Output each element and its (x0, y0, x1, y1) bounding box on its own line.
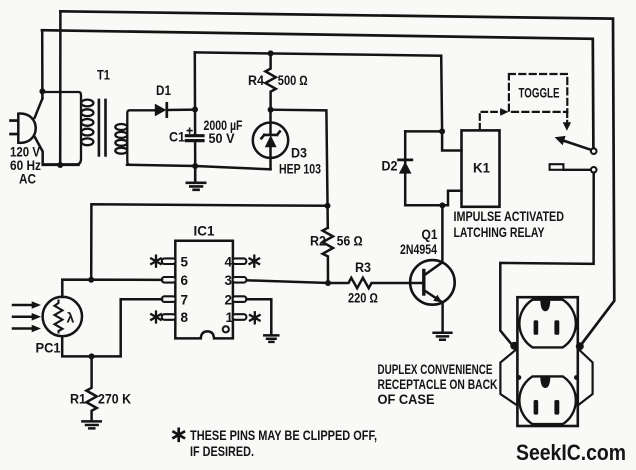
asterisk near pin 4 (250, 256, 260, 267)
wire K1 upper pin lead (442, 131, 461, 150)
svg-text:LATCHING RELAY: LATCHING RELAY (454, 225, 545, 240)
asterisk near pin 5 (151, 256, 161, 267)
transistor Q1 emitter stroke with arrow (424, 290, 441, 302)
wire C1 bottom lead (194, 141, 197, 166)
svg-text:270 K: 270 K (98, 392, 131, 407)
pin 4 stub (233, 258, 247, 264)
svg-text:R2: R2 (310, 234, 326, 249)
wire PC1 top lead to pin 6 (62, 280, 162, 297)
wire plug bottom lead down to bottom AC wire (35, 137, 79, 165)
receptacle left terminal screw (510, 342, 518, 350)
svg-text:D1: D1 (156, 83, 171, 98)
svg-text:SeekIC.com: SeekIC.com (516, 440, 626, 465)
wire dashed toggle box to switch with arrow (566, 112, 568, 122)
ground below C1 (187, 166, 205, 190)
wire dashed K1 to toggle box with arrow (480, 112, 501, 130)
receptacle left mounting wing (500, 349, 517, 406)
diode D2 (399, 158, 412, 161)
wire rail B vertical (59, 11, 62, 165)
node Q1 collector junction (439, 202, 445, 208)
light arrow 1 into PC1 (13, 304, 33, 307)
node R2/R3/pin3 junction (325, 280, 331, 286)
switch blade with arrowhead (563, 140, 591, 150)
transformer T1 primary winding lead (42, 92, 81, 164)
receptacle bottom outlet face (519, 376, 576, 424)
diode D1 (155, 104, 167, 117)
switch fixed contact pad (550, 164, 564, 170)
transistor Q1 circle (410, 260, 455, 305)
svg-text:7: 7 (181, 292, 189, 307)
svg-text:2N4954: 2N4954 (400, 242, 437, 257)
asterisk footnote star (174, 429, 184, 441)
node rail B / primary bottom junction (57, 162, 63, 168)
pin 6 stub (162, 277, 176, 283)
asterisk near pin 8 (151, 312, 161, 323)
svg-text:500 Ω: 500 Ω (278, 73, 308, 88)
wire secondary bottom to D3 bottom (127, 165, 271, 170)
svg-text:4: 4 (225, 254, 233, 269)
wire pin 2 to ground (246, 299, 271, 334)
photocell PC1 element zigzag (55, 301, 63, 333)
receptacle top outlet face (519, 300, 576, 348)
node R4 top junction (268, 50, 274, 56)
wire rail A vertical (41, 30, 44, 98)
svg-text:IMPULSE ACTIVATED: IMPULSE ACTIVATED (454, 209, 565, 224)
svg-text:220 Ω: 220 Ω (348, 291, 378, 306)
svg-text:Q1: Q1 (422, 227, 438, 242)
pin 2 stub (233, 296, 247, 302)
switch bottom terminal (591, 167, 597, 173)
svg-text:K1: K1 (473, 161, 490, 176)
svg-text:2: 2 (225, 292, 233, 307)
AC plug prongs (9, 119, 18, 122)
receptacle top outlet keyhole notch (540, 300, 550, 311)
svg-text:IC1: IC1 (194, 223, 215, 238)
relay K1 box (462, 130, 500, 206)
capacitor C1 plates (186, 134, 203, 137)
resistor R2 (323, 228, 333, 283)
pin 5 stub (162, 258, 176, 264)
wire Q1 emitter to ground (441, 303, 444, 332)
asterisk near pin 1 (250, 312, 260, 323)
svg-text:HEP 103: HEP 103 (279, 162, 321, 177)
svg-text:6: 6 (181, 273, 189, 288)
svg-text:1: 1 (226, 310, 234, 325)
svg-text:C1: C1 (169, 130, 185, 145)
light arrow 2 into PC1 (13, 316, 33, 319)
wire K1 lower pin lead (405, 191, 461, 206)
transistor Q1 base bar (422, 271, 425, 295)
svg-text:THESE PINS MAY BE CLIPPED OFF,: THESE PINS MAY BE CLIPPED OFF, (190, 427, 377, 443)
wire D2 branch vertical (404, 131, 407, 205)
wire C1 rail upper: corner down to D1 junction and C1 top plate (194, 52, 197, 135)
svg-text:R1: R1 (70, 392, 86, 407)
svg-text:D2: D2 (382, 159, 398, 174)
svg-text:8: 8 (181, 310, 189, 325)
svg-text:AC: AC (19, 171, 36, 186)
svg-text:3: 3 (225, 273, 233, 288)
pin 1 stub (233, 314, 247, 320)
svg-text:R3: R3 (355, 260, 371, 275)
svg-text:λ: λ (67, 310, 75, 326)
svg-text:PC1: PC1 (36, 341, 61, 356)
svg-text:DUPLEX CONVENIENCE: DUPLEX CONVENIENCE (378, 362, 493, 377)
pin 3 stub (233, 277, 247, 283)
ground at Q1 emitter (434, 333, 452, 340)
svg-text:OF CASE: OF CASE (378, 392, 435, 407)
node PC1 feed junction (325, 203, 331, 209)
node PC1 top junction (88, 277, 94, 283)
ground below R1 (82, 421, 100, 428)
wire D3 leads (269, 110, 272, 170)
light arrow 3 into PC1 (13, 327, 33, 330)
wire switch to receptacle left screw (500, 173, 593, 347)
switch top terminal (591, 148, 597, 154)
svg-text:T1: T1 (97, 68, 110, 83)
wire outer border: AC line from rail B along top, down right side to receptacle (60, 11, 614, 345)
node C1/ground junction (192, 163, 198, 169)
node D1/C1 junction (192, 107, 198, 113)
op-amp IC1 body with pin-1 notch (175, 241, 233, 339)
pin 7 stub (162, 296, 176, 302)
node R4/D3 junction (268, 107, 274, 113)
node rail A / primary top junction (39, 88, 45, 94)
switch fixed contact line (563, 169, 591, 171)
receptacle right terminal screw (576, 342, 584, 350)
wire plug top lead to rail A (35, 99, 43, 118)
AC plug body (18, 114, 35, 143)
resistor R1 (86, 356, 96, 420)
svg-text:IF DESIRED.: IF DESIRED. (190, 443, 254, 459)
receptacle top outlet slots (534, 320, 539, 335)
wire K1 feed vertical drop (440, 56, 443, 132)
wire inner border: AC line from rail A along top to switch (42, 30, 593, 148)
transformer T1 core (98, 100, 101, 155)
transistor Q1 collector stroke (424, 262, 443, 275)
svg-text:56 Ω: 56 Ω (337, 234, 363, 249)
wire D1 cathode to C1 junction (167, 108, 195, 111)
resistor R4 (265, 53, 275, 109)
wire Q1 collector up to K1 bottom junction (441, 205, 444, 262)
receptacle bottom outlet keyhole notch (540, 377, 550, 388)
svg-text:5: 5 (181, 254, 189, 269)
transformer T1 secondary loops (115, 124, 127, 154)
wire pin 3 to junction (246, 280, 328, 283)
capacitor C1 polarity plus (187, 128, 192, 133)
zener diode D3 circle (253, 123, 288, 158)
receptacle right side screw (574, 375, 579, 380)
svg-text:RECEPTACLE ON BACK: RECEPTACLE ON BACK (378, 377, 498, 392)
resistor R3 (328, 278, 424, 288)
receptacle bottom outlet slots (534, 400, 539, 415)
svg-text:50 V: 50 V (209, 131, 235, 146)
svg-text:R4: R4 (248, 73, 264, 88)
node R1 top junction (89, 353, 95, 359)
wire V+ top distribution: from D1 junction up and right to K1 drop (195, 52, 441, 55)
pin 8 stub (162, 314, 176, 320)
photocell PC1 circle (43, 297, 82, 336)
svg-text:D3: D3 (291, 146, 307, 161)
node K1 feed junction (439, 128, 445, 134)
wire D3 junction to R2 drop (271, 110, 328, 228)
wire PC1 feed: junction left and down to PC1 top node (91, 204, 327, 279)
receptacle left side screw (517, 375, 522, 380)
transformer T1 primary loops (81, 100, 93, 146)
ground at pin 2 (264, 335, 278, 342)
wire D2 top to K1 feed (405, 130, 442, 133)
svg-text:TOGGLE: TOGGLE (519, 86, 560, 101)
pin 1 indicator circle (223, 326, 229, 332)
receptacle plate (517, 297, 577, 426)
zener D3 symbol (265, 135, 277, 147)
transformer T1 secondary winding lead (127, 110, 155, 165)
toggle dashed box (509, 74, 567, 112)
wire PC1 bottom lead to pin 7 riser (62, 299, 162, 356)
receptacle right mounting wing (578, 349, 593, 406)
